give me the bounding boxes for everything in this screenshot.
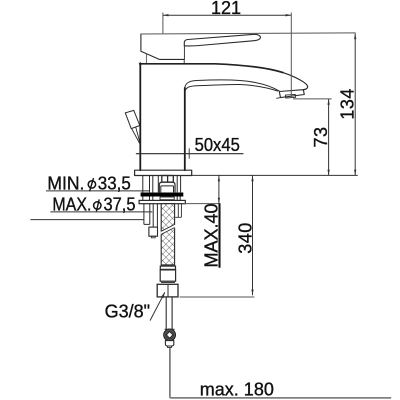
svg-text:33,5: 33,5 <box>98 173 131 193</box>
svg-text:340: 340 <box>236 222 256 254</box>
svg-text:73: 73 <box>311 126 331 147</box>
svg-text:37,5: 37,5 <box>104 194 136 214</box>
svg-text:MIN.: MIN. <box>47 173 84 193</box>
svg-text:MAX.40: MAX.40 <box>202 203 222 267</box>
svg-text:G3/8": G3/8" <box>105 302 150 322</box>
svg-text:121: 121 <box>211 0 241 18</box>
svg-text:50x45: 50x45 <box>195 135 240 155</box>
svg-text:134: 134 <box>337 88 357 120</box>
svg-text:MAX.: MAX. <box>52 194 91 214</box>
svg-text:max. 180: max. 180 <box>200 379 274 399</box>
